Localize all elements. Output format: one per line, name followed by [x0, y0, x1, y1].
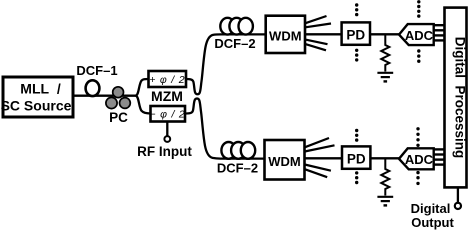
channel dots below ADC (top) [417, 49, 420, 63]
wire PD to ADC (top) [370, 33, 400, 35]
svg-text:SC Source: SC Source [1, 98, 72, 114]
svg-text:PC: PC [109, 110, 128, 125]
MLL / SC Source box [1, 77, 73, 117]
load resistor (bottom) [381, 158, 389, 195]
MZM upper phase arm +phi/2 [149, 71, 187, 87]
svg-text:PD: PD [346, 27, 365, 42]
WDM demultiplexer box (bottom) [265, 140, 305, 180]
polarization controller PC [106, 87, 130, 109]
channel dots above ADC (top) [417, 0, 420, 18]
DCF-2 coil (bottom branch) [221, 142, 255, 159]
ground (top) [377, 73, 393, 82]
svg-text:MLL /: MLL / [20, 80, 61, 96]
digital bus ADC to processor (bottom) [434, 149, 445, 164]
wire PD to ADC (bottom) [370, 157, 400, 159]
svg-text:ADC: ADC [405, 152, 434, 167]
svg-text:Digital: Digital [411, 201, 451, 216]
WDM fan-out fibers (bottom) [305, 138, 335, 177]
svg-text:MZM: MZM [151, 88, 183, 104]
Digital Processing box [445, 8, 468, 188]
DCF-1 fiber loop [86, 80, 100, 96]
photodiode PD box (bottom) [342, 146, 370, 168]
DCF-2 coil (top branch) [220, 18, 253, 35]
svg-text:DCF–2: DCF–2 [214, 36, 255, 51]
wire from source to splitter [73, 95, 138, 97]
svg-text:Output: Output [411, 215, 454, 230]
channel dots above PD (bottom) [355, 129, 358, 142]
svg-text:Digital Processing: Digital Processing [453, 37, 468, 159]
svg-text:RF Input: RF Input [137, 144, 192, 159]
channel dots below PD (top) [355, 49, 358, 62]
WDM demultiplexer box (top) [266, 16, 305, 53]
digital output stem wire [457, 187, 459, 202]
digital bus ADC to processor (top) [434, 25, 445, 40]
MZM upper arm output coupler wire [186, 34, 266, 94]
svg-text:WDM: WDM [268, 154, 301, 169]
ground (bottom) [377, 197, 393, 206]
channel dots below PD (bottom) [355, 171, 358, 184]
WDM fan-out fibers (top) [305, 16, 331, 50]
svg-text:− φ / 2: − φ / 2 [149, 109, 185, 121]
svg-text:PD: PD [347, 151, 366, 166]
svg-text:WDM: WDM [269, 28, 302, 43]
ADC converter (top) [399, 24, 434, 45]
channel dots above ADC (bottom) [416, 127, 419, 147]
svg-text:ADC: ADC [405, 28, 434, 43]
channel dots below ADC (bottom) [416, 171, 419, 185]
wire WDM to PD (top) [305, 33, 341, 35]
RF input terminal [164, 136, 170, 142]
wire WDM to PD (bottom) [305, 157, 342, 159]
channel dots above PD (top) [355, 3, 358, 16]
svg-text:DCF–1: DCF–1 [76, 63, 117, 78]
photodiode PD box (top) [342, 22, 370, 44]
svg-text:+ φ / 2: + φ / 2 [149, 74, 185, 86]
digital output terminal [455, 203, 461, 209]
MZM input Y-splitter wires [136, 79, 149, 96]
MZM lower phase arm -phi/2 [149, 106, 185, 122]
MZM lower arm output coupler wire [185, 99, 265, 159]
load resistor (top) [381, 34, 389, 71]
ADC converter (bottom) [399, 148, 434, 169]
RF input stem wire [166, 122, 168, 137]
svg-text:DCF–2: DCF–2 [217, 161, 258, 176]
